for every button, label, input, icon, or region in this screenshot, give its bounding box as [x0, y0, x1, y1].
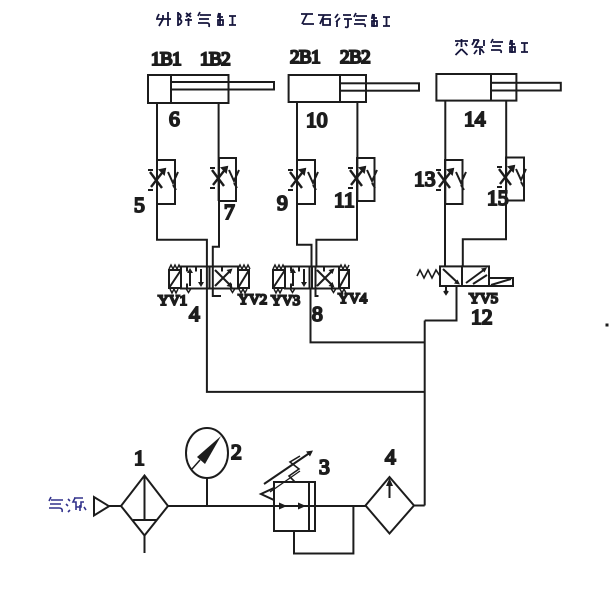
filter 1: [121, 476, 168, 536]
valve U8 right solenoid: [339, 265, 349, 293]
cylinder 6 body: [148, 75, 229, 103]
cylinder 6 piston: [170, 75, 172, 103]
cylinder 6 rod: [171, 82, 274, 90]
svg-text:4: 4: [189, 302, 200, 326]
wire supply riser: [424, 321, 426, 506]
wire valve9 to valve8: [297, 204, 312, 267]
svg-text:11: 11: [334, 188, 355, 212]
cylinder 14 rod: [491, 83, 561, 91]
wire valve12 supply down: [425, 286, 457, 321]
regulator 3 spring and adjuster: [264, 451, 313, 493]
valve U12 exhaust stub: [444, 286, 448, 294]
cylinder 14 body: [436, 74, 516, 101]
flow valve 7: [210, 158, 239, 201]
flow valve 11: [348, 158, 377, 201]
flow valve 15: [497, 158, 526, 201]
svg-text:2B2: 2B2: [340, 47, 370, 68]
svg-text:1B1: 1B1: [151, 49, 181, 70]
cylinder 10 piston: [339, 75, 341, 102]
svg-text:14: 14: [464, 107, 486, 131]
regulator 3 body: [274, 482, 315, 531]
wire valve5 to valve4: [157, 204, 207, 267]
svg-text:13: 13: [414, 167, 436, 191]
title travel-cylinder 左右行气缸: [301, 13, 390, 27]
wire valve13 to valve12: [444, 204, 446, 266]
flow valve 9: [288, 160, 318, 204]
svg-text:2B1: 2B1: [290, 47, 320, 68]
regulator 3 relief triangle: [261, 488, 274, 500]
title lift-cylinder 升降气缸: [156, 12, 236, 27]
svg-text:6: 6: [169, 107, 180, 131]
wire valve11 to valve8: [316, 201, 357, 267]
wire source to filter: [109, 505, 121, 507]
svg-text:7: 7: [224, 200, 235, 224]
wire filter to regulator: [168, 505, 274, 507]
title clamp-cylinder 夹紧气缸: [455, 39, 528, 55]
valve U4 body: [181, 267, 238, 293]
svg-text:1B2: 1B2: [200, 49, 230, 70]
wire valve15 to valve12: [463, 201, 506, 267]
svg-text:8: 8: [312, 302, 323, 326]
valve U4 left solenoid: [169, 265, 181, 293]
cylinder 14 piston: [490, 74, 492, 101]
air source triangle: [94, 497, 109, 516]
wire cyl14 right port down: [505, 101, 507, 201]
filter drain: [144, 536, 146, 554]
flow valve 13: [436, 160, 466, 204]
valve U12 body: [440, 266, 489, 286]
svg-text:1: 1: [134, 446, 145, 470]
svg-text:4: 4: [385, 445, 396, 469]
wire valve8 supply down: [311, 289, 425, 343]
svg-text:YV2: YV2: [238, 292, 267, 308]
node dot right edge: [606, 324, 609, 327]
svg-text:9: 9: [277, 191, 288, 215]
lubricator 4: [366, 477, 415, 534]
svg-text:YV4: YV4: [338, 291, 368, 307]
wire valve7 to valve4: [213, 201, 219, 267]
valve U12 spring: [417, 270, 440, 278]
valve U12 solenoid: [489, 278, 513, 286]
svg-text:12: 12: [471, 305, 493, 329]
pressure gauge 2: [186, 428, 228, 478]
wire unit4 to riser: [414, 505, 425, 507]
svg-text:YV3: YV3: [271, 293, 300, 309]
cylinder 10 body: [289, 75, 366, 102]
wire cyl10 right port down: [356, 102, 358, 201]
wire cyl6 right port down: [218, 103, 220, 201]
svg-text:10: 10: [306, 108, 328, 132]
valve U4 exhaust stub: [213, 289, 221, 297]
wire cyl14 left port down: [444, 101, 446, 204]
wire valve4 supply down: [207, 289, 425, 392]
svg-text:5: 5: [134, 193, 145, 217]
label 气源: [49, 497, 86, 512]
wire cyl6 left port down: [156, 103, 158, 204]
wire cyl10 left port down: [296, 102, 298, 204]
svg-text:YV1: YV1: [158, 293, 187, 309]
gauge stem: [206, 478, 208, 506]
regulator feedback loop: [294, 506, 353, 554]
wire regulator to unit4: [315, 505, 366, 507]
svg-text:2: 2: [231, 440, 242, 464]
flow valve 5: [148, 160, 178, 204]
valve U4 right solenoid: [238, 265, 250, 293]
valve U8 exhaust stub: [316, 289, 319, 297]
svg-text:3: 3: [319, 455, 330, 479]
valve U8 body: [285, 267, 339, 293]
cylinder 10 rod: [340, 83, 419, 90]
valve U8 left solenoid: [273, 265, 285, 293]
